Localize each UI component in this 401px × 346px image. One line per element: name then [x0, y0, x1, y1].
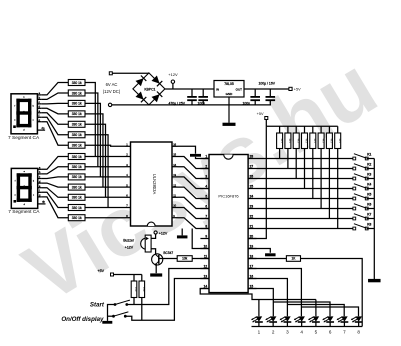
- svg-text:26: 26: [250, 175, 254, 179]
- svg-text:9: 9: [205, 235, 207, 239]
- switch S1 Start: [114, 303, 117, 306]
- wire R23 to LED cathode rail: [301, 259, 363, 327]
- svg-text:4k7: 4k7: [280, 139, 284, 144]
- svg-text:330 1k: 330 1k: [72, 206, 82, 210]
- svg-text:330 1k: 330 1k: [72, 81, 82, 85]
- wire U1 pin 22 to key K7: [257, 218, 355, 220]
- svg-text:6: 6: [329, 329, 332, 334]
- wire U1 pin 14 to LED rail A: [200, 289, 316, 300]
- U1 pin 26 stub: [248, 178, 256, 180]
- ground (S1/S2 common): [102, 321, 112, 324]
- svg-text:12: 12: [173, 183, 176, 187]
- svg-text:8: 8: [357, 329, 360, 334]
- resistor R7 (segment g digit 1): [68, 142, 85, 148]
- op-amp driver IC U2 ULN2803A body: [131, 142, 173, 226]
- capacitor C2 100n: [202, 89, 204, 96]
- wire U1 pin 21 to key K8: [257, 228, 355, 230]
- svg-text:+5V: +5V: [257, 112, 264, 116]
- svg-text:100µ / 16V: 100µ / 16V: [259, 81, 276, 85]
- wire K1 to common: [367, 158, 375, 160]
- resistor R12 (segment e digit 2): [68, 194, 85, 200]
- svg-text:ULN2803A: ULN2803A: [152, 174, 157, 195]
- U1 pin 13 stub: [200, 278, 209, 280]
- resistor R2 (segment b digit 1): [68, 90, 85, 96]
- resistor R14 (segment g digit 2): [68, 215, 85, 221]
- wire U2 pin 14 to U1 pin 3: [178, 167, 210, 179]
- svg-text:(12V DC): (12V DC): [103, 89, 121, 94]
- LED D5: [298, 316, 305, 321]
- U2 pin 9 stub: [172, 217, 178, 219]
- wire row R14 to IC1 pin 8: [85, 217, 126, 219]
- wire Q1 base to R24: [159, 258, 177, 260]
- svg-text:100n: 100n: [243, 102, 251, 106]
- wire buzzer - to Q1 collector: [151, 249, 156, 255]
- wire U3 OUT to +5V: [244, 88, 289, 90]
- resistor R18 pull-up body: [304, 126, 306, 133]
- svg-text:330 1k: 330 1k: [72, 155, 82, 159]
- wire LED1 drop: [258, 300, 260, 317]
- svg-text:4k7: 4k7: [288, 139, 292, 144]
- svg-text:330 1k: 330 1k: [72, 112, 82, 116]
- wire DS2 pin c to R10: [42, 177, 69, 179]
- microcontroller U1 PIC16F876 body: [209, 155, 248, 293]
- wire segment bus e (R5 to row of R12): [85, 124, 106, 197]
- switch K3: [353, 177, 356, 180]
- U1 pin 20 stub: [248, 238, 256, 240]
- wire key common down: [373, 159, 375, 280]
- wire DS1 pin c to R3: [41, 102, 68, 104]
- svg-text:Buzzer: Buzzer: [123, 239, 135, 243]
- U1 pin 19 stub: [248, 248, 256, 250]
- resistor R16 pull-up body: [287, 126, 289, 133]
- U2 pin 4 stub: [126, 176, 131, 178]
- switch S2 On/Off: [112, 315, 115, 318]
- resistor R25 body: [131, 281, 137, 298]
- wire R24 to U1 pin 11: [192, 258, 209, 260]
- svg-text:4k7: 4k7: [313, 139, 317, 144]
- wire DS1 pin d to R4: [41, 108, 68, 114]
- svg-text:KBPC1: KBPC1: [144, 87, 155, 91]
- wire to R25 top: [133, 275, 135, 282]
- svg-text:K3: K3: [367, 173, 371, 177]
- U2 pin 15 stub: [172, 156, 178, 158]
- LED D3: [270, 316, 277, 321]
- wire DS1 pin e to R5: [41, 113, 68, 125]
- wire J1 to bridge AC1: [112, 72, 149, 74]
- wire U3 GND to ground: [228, 97, 230, 123]
- svg-text:10k: 10k: [134, 287, 138, 292]
- resistor R26 body: [139, 281, 145, 298]
- resistor R5 (segment e digit 1): [68, 121, 85, 127]
- DS1 pin e: [37, 112, 41, 114]
- U1 pin 11 stub: [200, 258, 209, 260]
- U1 pin 7 stub: [200, 218, 209, 220]
- wire U2 pin 9 to U1 pin 8: [178, 218, 210, 229]
- wire U1 pin 17 to LED4/LED8: [248, 269, 301, 317]
- wire K4 to common: [367, 188, 375, 190]
- svg-text:10k: 10k: [182, 257, 188, 261]
- ground (key common): [368, 279, 381, 282]
- wire row R13 to IC1 pin 7: [85, 207, 126, 209]
- svg-text:+5V: +5V: [294, 88, 301, 92]
- wire segment bus d (R4 to row of R11): [85, 114, 103, 187]
- switch K6: [353, 207, 356, 210]
- wire U1 pin 19 to ground: [248, 249, 270, 253]
- LED D7: [327, 316, 334, 321]
- svg-text:4k7: 4k7: [305, 139, 309, 144]
- svg-text:13: 13: [173, 173, 176, 177]
- svg-text:14: 14: [173, 163, 176, 167]
- svg-text:22: 22: [250, 215, 254, 219]
- transistor Q1 BC547: [152, 254, 163, 265]
- wire U1 pin 15 to LED2/LED6: [248, 289, 273, 317]
- U2 pin 7 stub: [126, 207, 131, 209]
- wire R18 to key row 4: [304, 149, 306, 189]
- svg-text:5: 5: [315, 329, 318, 334]
- wire U2 pin 16 to ground bar: [178, 146, 196, 154]
- wire DS1 pin f to R6: [41, 117, 68, 135]
- diode D1c (bridge bottom-left): [136, 92, 144, 100]
- diode D1d (bridge bottom-right): [152, 94, 160, 102]
- wire U1 pin 28 to key K1: [257, 158, 355, 160]
- wire DS2 pin b to R9: [42, 167, 69, 174]
- svg-text:K6: K6: [367, 203, 371, 207]
- wire S1/S2 common: [108, 305, 116, 321]
- terminal J1 (AC input top): [109, 72, 112, 75]
- svg-text:3: 3: [286, 329, 289, 334]
- U1 pin 15 stub: [248, 288, 256, 290]
- svg-text:+12V: +12V: [159, 231, 168, 235]
- switch K2: [353, 167, 356, 170]
- resistor R17 pull-up body: [295, 126, 297, 133]
- svg-text:330 1k: 330 1k: [72, 165, 82, 169]
- resistor R22 pull-up body: [337, 126, 339, 133]
- wire R15 to key row 1: [279, 149, 281, 159]
- LED D6: [313, 316, 320, 321]
- terminal +5V (regulator output): [289, 87, 292, 90]
- DS1 pin d: [37, 107, 41, 109]
- wire row R9 to IC1 pin 3: [85, 166, 126, 168]
- svg-text:330 1k: 330 1k: [72, 91, 82, 95]
- U1 pin 3 stub: [200, 178, 209, 180]
- DS1 pin c: [37, 103, 41, 105]
- U2 pin 3 stub: [126, 166, 131, 168]
- U2 pin 12 stub: [172, 186, 178, 188]
- wire +5V to U1 pin 20 (Vdd): [248, 126, 266, 238]
- wire ground bar to U1 pin 1: [196, 157, 210, 159]
- DS1 pin dp: [37, 129, 45, 131]
- wire buzzer + to +12V: [151, 234, 156, 238]
- svg-text:2: 2: [272, 329, 275, 334]
- svg-text:4k7: 4k7: [321, 139, 325, 144]
- svg-text:7 Segment CA: 7 Segment CA: [8, 209, 40, 215]
- U1 pin 1 stub: [200, 158, 209, 160]
- U1 pin 10 stub: [200, 248, 209, 250]
- wire K7 to common: [367, 218, 375, 220]
- terminal +12V (buzzer): [154, 231, 157, 234]
- svg-text:K2: K2: [367, 163, 371, 167]
- DS2 pin g: [38, 196, 42, 198]
- ground (U1 pin 8): [177, 235, 188, 238]
- wire U1 pin 16 to LED3/LED7: [248, 279, 287, 317]
- svg-text:4k7: 4k7: [330, 139, 334, 144]
- wire DS1 pin a to R1: [41, 83, 68, 95]
- switch K1: [353, 157, 356, 160]
- voltage regulator U3 7805: [214, 81, 244, 98]
- ground (Q1 emitter): [150, 273, 162, 276]
- svg-text:4k7: 4k7: [296, 139, 300, 144]
- 7-segment display DS2 (common anode): [11, 168, 37, 208]
- wire +5V to pull-ups: [114, 274, 142, 276]
- wire segment bus a (R1 to row of R8): [85, 83, 95, 157]
- U2 pin 11 stub: [172, 196, 178, 198]
- wire U2 pin 13 to U1 pin 4: [178, 177, 210, 189]
- resistor R19 pull-up body: [312, 126, 314, 133]
- U1 pin 22 stub: [248, 218, 256, 220]
- svg-text:470µ / 25V: 470µ / 25V: [169, 102, 186, 106]
- wire DS2 pin a to R8: [42, 157, 69, 170]
- wire U2 pin 11 to U1 pin 6: [178, 197, 210, 208]
- svg-text:4k7: 4k7: [338, 139, 342, 144]
- svg-text:K1: K1: [367, 153, 371, 157]
- svg-text:10k: 10k: [142, 287, 146, 292]
- wire segment g digit1 (R7 to IC1 pin 1): [85, 145, 126, 146]
- U2 pin 8 stub: [126, 217, 131, 219]
- terminal +12V (top): [171, 80, 174, 83]
- svg-text:+12V: +12V: [168, 72, 178, 77]
- wire segment bus f (R6 to row of R13): [85, 135, 108, 208]
- wire segment bus c (R3 to row of R10): [85, 103, 100, 176]
- U1 pin 8 stub: [200, 228, 209, 230]
- wire U2 pin 10 to U1 pin 7: [178, 208, 210, 219]
- diode D1b (bridge top-right): [152, 76, 160, 84]
- svg-text:K5: K5: [367, 193, 371, 197]
- svg-text:+5V: +5V: [98, 269, 105, 273]
- ground (between U2 and U1): [190, 154, 201, 157]
- U1 pin 6 stub: [200, 208, 209, 210]
- resistor R9 (segment b digit 2): [68, 164, 85, 170]
- wire K8 to common: [367, 228, 375, 230]
- svg-text:23: 23: [250, 205, 254, 209]
- switch K4: [353, 187, 356, 190]
- wire K3 to common: [367, 178, 375, 180]
- wire R19 to key row 5: [312, 149, 314, 199]
- U1 pin 9 stub: [200, 238, 209, 240]
- wire U1 pin 24 to key K5: [257, 198, 355, 200]
- svg-text:330 1k: 330 1k: [72, 216, 82, 220]
- svg-text:15: 15: [173, 153, 176, 157]
- wire pull-up bank rail: [266, 125, 337, 127]
- svg-text:27: 27: [250, 165, 254, 169]
- svg-text:7 Segment CA: 7 Segment CA: [8, 135, 40, 141]
- wire U1 pin 25 to key K4: [257, 188, 355, 190]
- svg-text:330 1k: 330 1k: [72, 133, 82, 137]
- svg-text:PIC16F876: PIC16F876: [218, 193, 239, 198]
- diode D1a (bridge top-left): [136, 78, 144, 86]
- resistor R1 (segment a digit 1): [68, 80, 85, 86]
- wire bridge + output to regulator IN: [165, 88, 214, 90]
- svg-text:330 1k: 330 1k: [72, 196, 82, 200]
- wire K6 to common: [367, 208, 375, 210]
- U1 pin 28 stub: [248, 158, 256, 160]
- U2 pin 2 stub: [126, 156, 131, 158]
- svg-text:330 1k: 330 1k: [72, 102, 82, 106]
- svg-text:330 1k: 330 1k: [72, 185, 82, 189]
- buzzer BZ1 body: [141, 238, 146, 249]
- svg-text:On/Off display: On/Off display: [61, 316, 104, 323]
- DS1 pin b: [37, 98, 41, 100]
- resistor R4 (segment d digit 1): [68, 111, 85, 117]
- wire DS2 pin f to R13: [42, 192, 69, 207]
- svg-text:K4: K4: [367, 183, 371, 187]
- svg-text:28: 28: [250, 155, 254, 159]
- U2 pin 14 stub: [172, 166, 178, 168]
- terminal +5V (keys): [111, 273, 114, 276]
- switch K5: [353, 197, 356, 200]
- resistor R10 (segment c digit 2): [68, 174, 85, 180]
- wire U2 pin 15 to U1 pin 2: [178, 157, 210, 169]
- LED D2: [256, 316, 263, 321]
- U1 pin 25 stub: [248, 188, 256, 190]
- wire to R26 top: [141, 275, 143, 282]
- svg-text:+12V: +12V: [125, 246, 134, 250]
- svg-text:10: 10: [173, 204, 176, 208]
- wire segment bus b (R2 to row of R9): [85, 93, 98, 167]
- wire DS2 pin d to R11: [42, 183, 69, 187]
- wire LED cathode rail: [252, 326, 363, 328]
- wire K2 to common: [367, 168, 375, 170]
- svg-text:K8: K8: [367, 223, 371, 227]
- wire S1 to U1 pin 12: [127, 269, 209, 305]
- wire U1 pin 8 to ground: [181, 229, 183, 236]
- svg-text:16: 16: [173, 143, 176, 147]
- svg-text:7: 7: [343, 329, 346, 334]
- resistor R20 pull-up body: [320, 126, 322, 133]
- wire U1 pin 8 branch to U1 pin 10: [192, 229, 209, 249]
- DS2 pin b: [38, 173, 42, 175]
- wire U1 pin 23 to key K6: [257, 208, 355, 210]
- DS1 pin g: [37, 121, 41, 123]
- svg-text:21: 21: [250, 225, 254, 229]
- U2 pin 5 stub: [126, 186, 131, 188]
- DS2 pin d: [38, 182, 42, 184]
- wire R17 to key row 3: [295, 149, 297, 179]
- DS1 pin f: [37, 116, 41, 118]
- capacitor C4 100n: [269, 89, 271, 96]
- capacitor C3 100u/16V: [254, 89, 256, 96]
- svg-text:K7: K7: [367, 213, 371, 217]
- U2 pin 13 stub: [172, 176, 178, 178]
- wire +5V terminal down to bank rail: [265, 120, 267, 127]
- U2 pin 1 stub: [126, 145, 131, 147]
- capacitor C1 470u/25V: [191, 89, 193, 96]
- resistor R6 (segment f digit 1): [68, 132, 85, 138]
- svg-text:GND: GND: [226, 92, 234, 96]
- U1 pin 5 stub: [200, 198, 209, 200]
- wire R20 to key row 6: [320, 149, 322, 209]
- svg-text:Start: Start: [90, 301, 105, 308]
- DS2 pin c: [38, 178, 42, 180]
- wire U2 pin 12 to U1 pin 5: [178, 187, 210, 198]
- bridge rectifier D1 KBPC1 outline: [133, 73, 165, 105]
- wire K5 to common: [367, 198, 375, 200]
- DS2 pin f: [38, 191, 42, 193]
- svg-text:25: 25: [250, 185, 254, 189]
- wire U1 pin 18 to R23: [248, 258, 286, 260]
- wire S2 to U1 pin 13: [125, 279, 209, 321]
- U1 pin 14 stub: [200, 288, 209, 290]
- wire ground rail: [148, 104, 150, 106]
- LED D4: [284, 316, 291, 321]
- resistor R3 (segment c digit 1): [68, 100, 85, 106]
- terminal J2 (AC input bottom): [108, 103, 111, 106]
- 7-segment display DS1 (common anode): [11, 94, 37, 134]
- wire row R10 to IC1 pin 4: [85, 176, 126, 178]
- wire DS1 pin b to R2: [41, 93, 68, 99]
- wire R25 to start row: [133, 298, 135, 305]
- LED D9: [355, 316, 362, 321]
- svg-text:IN: IN: [216, 87, 219, 91]
- svg-text:dp: dp: [42, 200, 45, 204]
- wire U1 pin 26 to key K3: [257, 178, 355, 180]
- U1 pin 16 stub: [248, 278, 256, 280]
- wire Q1 emitter to ground: [155, 265, 157, 273]
- wire R21 to key row 7: [328, 149, 330, 219]
- U2 pin 6 stub: [126, 196, 131, 198]
- wire R26 to onoff row: [141, 298, 143, 321]
- resistor R23 1K body: [286, 256, 300, 262]
- U1 pin 24 stub: [248, 198, 256, 200]
- LED D8: [341, 316, 348, 321]
- U1 pin 27 stub: [248, 168, 256, 170]
- wire row R12 to IC1 pin 6: [85, 196, 126, 198]
- svg-text:330 1k: 330 1k: [72, 123, 82, 127]
- U2 pin 10 stub: [172, 207, 178, 209]
- resistor R8 (segment a digit 2): [68, 154, 85, 160]
- DS2 pin e: [38, 187, 42, 189]
- wire R16 to key row 2: [287, 149, 289, 169]
- wire J2 to bridge AC2: [112, 104, 149, 106]
- U1 pin 12 stub: [200, 268, 209, 270]
- resistor R13 (segment f digit 2): [68, 205, 85, 211]
- wire row R8 to IC1 pin 2: [85, 156, 126, 158]
- svg-text:1: 1: [258, 329, 261, 334]
- U1 pin 17 stub: [248, 268, 256, 270]
- terminal +5V (pull-up bank): [265, 117, 268, 120]
- DS1 pin a: [37, 94, 41, 96]
- U1 pin 2 stub: [200, 168, 209, 170]
- resistor R11 (segment d digit 2): [68, 184, 85, 190]
- svg-text:BC547: BC547: [163, 251, 173, 255]
- U1 pin 18 stub: [248, 258, 256, 260]
- ground (U1 pin 19): [265, 253, 276, 256]
- wire U1 pin 27 to key K2: [257, 168, 355, 170]
- svg-text:6V AC: 6V AC: [106, 82, 118, 87]
- svg-text:100n: 100n: [198, 102, 206, 106]
- svg-text:OUT: OUT: [236, 87, 243, 91]
- switch K7: [353, 217, 356, 220]
- DS2 pin dp: [38, 203, 46, 205]
- wire DS2 pin e to R12: [42, 188, 69, 198]
- U1 pin 23 stub: [248, 208, 256, 210]
- svg-text:dp: dp: [42, 126, 45, 130]
- svg-text:4: 4: [300, 329, 303, 334]
- svg-text:330 1k: 330 1k: [72, 175, 82, 179]
- U1 pin 21 stub: [248, 228, 256, 230]
- resistor R21 pull-up body: [328, 126, 330, 133]
- wire R22 to key row 8: [337, 149, 339, 229]
- resistor R15 pull-up body: [279, 126, 281, 133]
